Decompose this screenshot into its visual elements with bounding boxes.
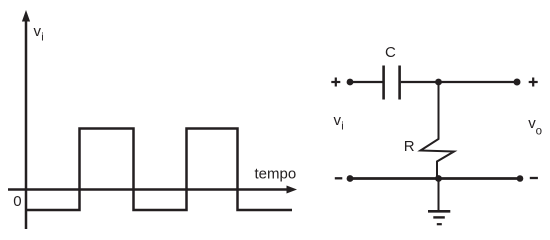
- bottom bus wire: [350, 177, 520, 180]
- svg-text:i: i: [41, 31, 43, 43]
- capacitor C left plate: [382, 66, 385, 100]
- node A junction dot (top of R): [435, 79, 442, 86]
- svg-text:C: C: [385, 44, 396, 61]
- svg-text:0: 0: [13, 193, 21, 210]
- x-axis tempo: [8, 188, 289, 190]
- ground symbol: [428, 211, 450, 224]
- y-axis arrowhead: [22, 10, 30, 22]
- wire (input terminal to capacitor): [350, 81, 383, 83]
- y-axis vi: [25, 18, 28, 229]
- x-axis arrowhead: [287, 186, 298, 194]
- resistor R (zigzag between node A and ground bus): [421, 83, 455, 178]
- svg-text:i: i: [341, 121, 343, 133]
- junction dot (bottom of R on bus): [435, 175, 442, 182]
- node dot (input bottom terminal): [347, 175, 354, 182]
- wire (capacitor to node A): [401, 81, 439, 83]
- square wave vi(t): [27, 129, 292, 211]
- capacitor C right plate: [398, 66, 401, 100]
- minus sign (output bottom terminal): [530, 177, 538, 179]
- svg-text:o: o: [536, 126, 542, 138]
- plus sign (input top terminal): [331, 78, 340, 87]
- wire (bus to ground): [438, 179, 440, 211]
- minus sign (input bottom terminal): [335, 177, 343, 179]
- svg-text:R: R: [404, 138, 415, 155]
- svg-text:tempo: tempo: [255, 166, 297, 183]
- node dot (output bottom terminal): [517, 175, 524, 182]
- wire (node A to output terminal): [439, 81, 518, 83]
- node dot (input top terminal): [347, 79, 354, 86]
- plus sign (output top terminal): [529, 78, 538, 87]
- node dot (output top terminal): [514, 79, 521, 86]
